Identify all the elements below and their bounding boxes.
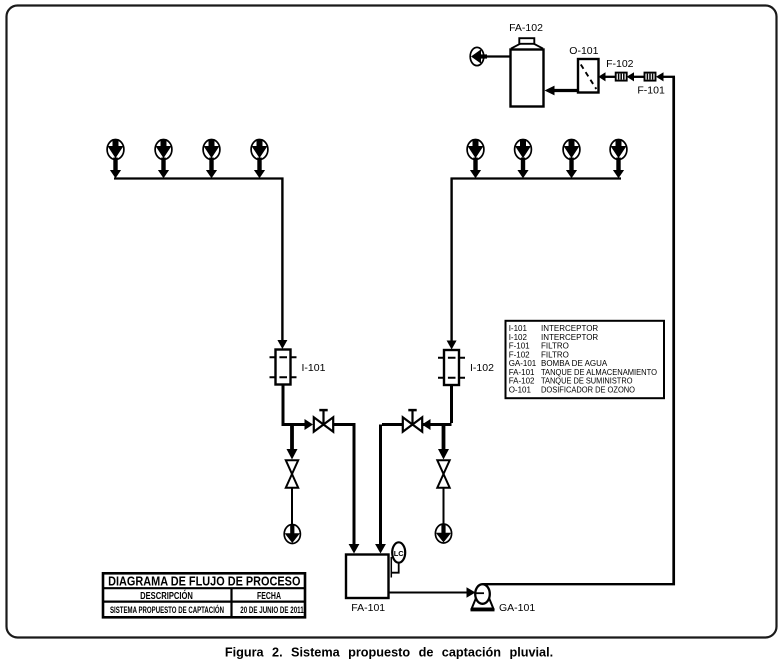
svg-text:20 DE JUNIO DE 2011: 20 DE JUNIO DE 2011 xyxy=(240,605,303,615)
svg-text:FECHA: FECHA xyxy=(257,591,281,602)
svg-text:INTERCEPTOR: INTERCEPTOR xyxy=(541,324,598,333)
svg-text:FILTRO: FILTRO xyxy=(541,350,569,359)
svg-text:I-101: I-101 xyxy=(302,362,326,374)
svg-text:F-101: F-101 xyxy=(509,342,530,351)
svg-text:DOSIFICADOR DE OZONO: DOSIFICADOR DE OZONO xyxy=(541,385,635,394)
svg-text:Figura 2. Sistema propuesto de: Figura 2. Sistema propuesto de captación… xyxy=(225,646,553,660)
svg-text:F-102: F-102 xyxy=(606,58,634,70)
svg-text:I-102: I-102 xyxy=(470,362,494,374)
svg-text:BOMBA DE AGUA: BOMBA DE AGUA xyxy=(541,359,608,368)
svg-text:I-102: I-102 xyxy=(509,333,528,342)
svg-text:DIAGRAMA DE FLUJO DE PROCESO: DIAGRAMA DE FLUJO DE PROCESO xyxy=(108,575,301,589)
svg-text:F-102: F-102 xyxy=(509,350,530,359)
svg-text:SISTEMA PROPUESTO DE CAPTACIÓN: SISTEMA PROPUESTO DE CAPTACIÓN xyxy=(110,604,224,615)
svg-text:O-101: O-101 xyxy=(569,45,598,57)
svg-text:FA-102: FA-102 xyxy=(509,377,535,386)
svg-text:GA-101: GA-101 xyxy=(499,602,535,614)
svg-text:F-101: F-101 xyxy=(637,85,665,97)
svg-text:FA-102: FA-102 xyxy=(509,22,543,34)
svg-text:TANQUE DE ALMACENAMIENTO: TANQUE DE ALMACENAMIENTO xyxy=(541,368,657,377)
svg-text:LC: LC xyxy=(394,549,405,558)
svg-text:O-101: O-101 xyxy=(509,385,532,394)
svg-text:TANQUE DE SUMINISTRO: TANQUE DE SUMINISTRO xyxy=(541,377,633,386)
svg-text:GA-101: GA-101 xyxy=(509,359,537,368)
svg-text:FA-101: FA-101 xyxy=(509,368,535,377)
svg-text:DESCRIPCIÓN: DESCRIPCIÓN xyxy=(140,589,193,602)
svg-text:FA-101: FA-101 xyxy=(351,602,385,614)
svg-text:INTERCEPTOR: INTERCEPTOR xyxy=(541,333,598,342)
svg-text:I-101: I-101 xyxy=(509,324,528,333)
svg-text:FILTRO: FILTRO xyxy=(541,342,569,351)
